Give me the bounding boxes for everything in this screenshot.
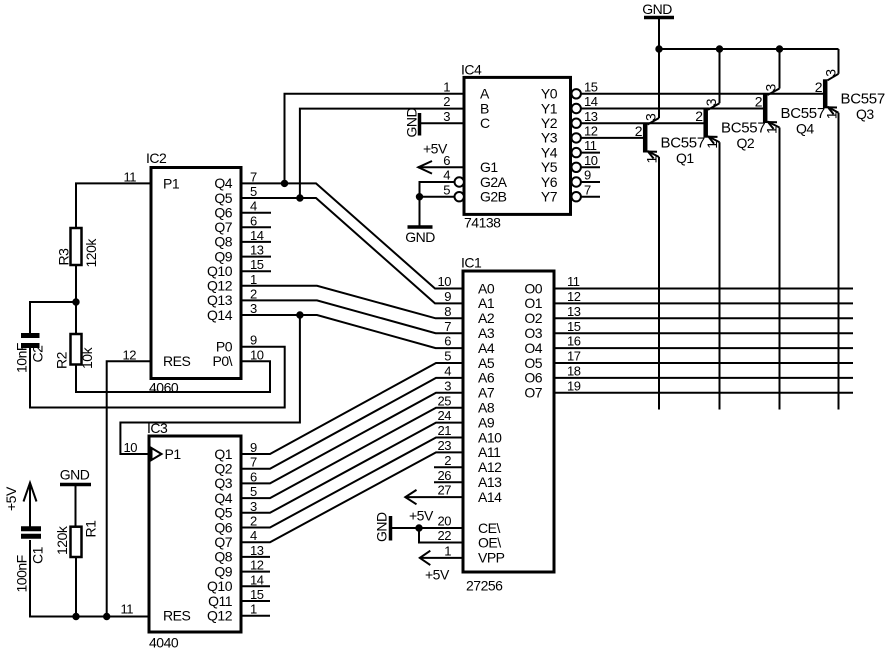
svg-text:Q1: Q1 [214, 446, 232, 462]
svg-text:VPP: VPP [478, 550, 505, 566]
svg-text:3: 3 [643, 113, 659, 121]
svg-text:Y6: Y6 [541, 174, 558, 190]
svg-text:3: 3 [250, 499, 257, 514]
IC4 Y3 inverting output circle [572, 133, 581, 142]
wire IC4 Y3 pin 12 to Q1 base [581, 137, 643, 139]
svg-text:Q4: Q4 [796, 121, 814, 137]
svg-text:A6: A6 [478, 370, 495, 386]
node Q5 branch junction [297, 195, 303, 201]
svg-text:Q4: Q4 [214, 175, 232, 191]
svg-text:2: 2 [443, 94, 450, 109]
svg-text:GND: GND [404, 108, 420, 138]
IC4 74138 decoder [443, 62, 597, 231]
svg-text:10nF: 10nF [14, 343, 30, 373]
svg-text:2: 2 [250, 514, 257, 529]
IC4 G2A inverting input circle [455, 177, 464, 186]
svg-text:Q8: Q8 [214, 549, 232, 565]
svg-text:2: 2 [444, 453, 451, 468]
svg-text:A5: A5 [478, 355, 495, 371]
svg-text:6: 6 [443, 153, 450, 168]
svg-text:A14: A14 [478, 489, 502, 505]
node Q14 branch junction [297, 312, 303, 318]
svg-text:Q3: Q3 [856, 106, 874, 122]
wire IC4 G2A G2B to ground [420, 182, 455, 227]
svg-text:A0: A0 [478, 280, 495, 296]
svg-text:20: 20 [438, 514, 452, 529]
wire IC2 Q10 pin 15 stub [241, 270, 271, 272]
svg-text:6: 6 [250, 213, 257, 228]
wire IC4 Y2 pin 13 to Q2 base [581, 122, 704, 124]
svg-text:9: 9 [250, 440, 257, 455]
svg-text:BC557: BC557 [781, 105, 825, 122]
ground bar for CE and OE [374, 512, 391, 542]
svg-text:Q10: Q10 [207, 578, 233, 594]
svg-text:G1: G1 [480, 159, 498, 175]
svg-text:13: 13 [250, 543, 264, 558]
wire IC1 O4 pin 16 output bus [554, 347, 853, 349]
svg-text:10: 10 [124, 440, 138, 455]
svg-text:Q12: Q12 [207, 608, 233, 624]
wire IC2 Q6 pin 4 stub [241, 212, 271, 214]
svg-text:9: 9 [584, 168, 591, 183]
svg-text:Q9: Q9 [214, 563, 232, 579]
IC1 27256 EPROM [438, 255, 581, 594]
svg-text:Q13: Q13 [207, 292, 233, 308]
svg-text:+5V: +5V [409, 508, 434, 524]
node Q4 branch junction [281, 180, 287, 186]
svg-text:G2B: G2B [480, 189, 507, 205]
svg-text:GND: GND [374, 512, 390, 542]
svg-text:IC1: IC1 [461, 255, 482, 271]
node CE-OE junction [416, 525, 422, 531]
node RES wire junction [104, 613, 110, 619]
IC4 Y1 inverting output circle [572, 104, 581, 113]
svg-text:2: 2 [250, 286, 257, 301]
svg-text:Y5: Y5 [541, 159, 558, 175]
svg-text:Y7: Y7 [541, 189, 558, 205]
svg-text:A3: A3 [478, 325, 495, 341]
wire IC2 Q14 to IC3 pin 10 P1 clock [120, 315, 300, 454]
transistor Q2 BC557 PNP [695, 49, 765, 410]
svg-text:8: 8 [444, 304, 451, 319]
wire IC1 A12 pin 2 stub [434, 466, 463, 468]
svg-text:13: 13 [567, 304, 581, 319]
node R3-R2-C2 junction [73, 299, 79, 305]
svg-text:10: 10 [438, 274, 452, 289]
node rail junction 2 [716, 46, 722, 52]
svg-text:R3: R3 [56, 248, 72, 266]
svg-text:26: 26 [438, 468, 452, 483]
wire IC2 Q9 pin 13 stub [241, 256, 271, 258]
svg-text:A13: A13 [478, 474, 502, 490]
svg-text:O6: O6 [524, 370, 542, 386]
svg-text:11: 11 [584, 138, 597, 153]
node rail junction 1 [656, 46, 662, 52]
svg-text:IC2: IC2 [146, 150, 167, 166]
svg-text:3: 3 [823, 69, 839, 77]
IC3 4040 binary counter [121, 420, 264, 651]
svg-text:24: 24 [438, 408, 452, 423]
svg-text:13: 13 [584, 109, 598, 124]
ground symbol above R1 [60, 467, 91, 528]
svg-text:3: 3 [444, 378, 451, 393]
svg-text:O5: O5 [524, 355, 542, 371]
wire IC3 Q3 pin 6 to IC1 A7 [241, 393, 463, 484]
IC4 Y0 inverting output circle [572, 89, 581, 98]
svg-text:Y3: Y3 [541, 130, 558, 146]
wire emitter supply rail [659, 48, 839, 50]
svg-text:Y0: Y0 [541, 86, 558, 102]
svg-text:12: 12 [123, 347, 137, 362]
svg-text:120k: 120k [83, 238, 99, 268]
svg-text:Q2: Q2 [737, 135, 755, 151]
svg-text:A12: A12 [478, 459, 502, 475]
svg-text:Y2: Y2 [541, 115, 558, 131]
node rail junction 3 [776, 46, 782, 52]
wire branch Q4 to IC4 pin 1 A [285, 94, 465, 184]
svg-text:O1: O1 [524, 295, 542, 311]
svg-text:5: 5 [250, 184, 257, 199]
svg-text:Q3: Q3 [214, 475, 232, 491]
wire IC3 Q8 pin 13 stub [241, 556, 270, 558]
svg-text:19: 19 [567, 378, 581, 393]
IC4 G2B inverting input circle [455, 192, 464, 201]
svg-text:15: 15 [584, 79, 598, 94]
svg-text:5: 5 [444, 349, 451, 364]
IC4 Y5 inverting output circle [572, 163, 581, 172]
wire IC1 A13 pin 26 stub [434, 481, 463, 483]
svg-text:Q4: Q4 [214, 490, 232, 506]
svg-text:BC557: BC557 [661, 135, 705, 152]
wire R2 bottom to IC2 pin 10 P0\ [76, 361, 270, 392]
svg-text:12: 12 [584, 124, 598, 139]
svg-text:11: 11 [124, 169, 137, 184]
wire R3 top to IC2 pin 11 (P1) [76, 183, 151, 228]
+5V supply arrow above C1 [3, 483, 37, 527]
svg-text:25: 25 [438, 393, 452, 408]
svg-text:O0: O0 [524, 280, 542, 296]
node G2A-G2B junction [416, 194, 422, 200]
svg-text:A4: A4 [478, 340, 495, 356]
svg-text:Q12: Q12 [207, 278, 233, 294]
svg-text:4: 4 [250, 528, 257, 543]
resistor R3 120k [56, 228, 100, 334]
svg-text:16: 16 [567, 334, 581, 349]
svg-text:Q5: Q5 [214, 505, 232, 521]
svg-text:1: 1 [764, 126, 780, 134]
svg-text:5: 5 [443, 182, 450, 197]
svg-text:15: 15 [567, 319, 581, 334]
ground symbol top [642, 1, 674, 49]
wire IC3 Q6 pin 2 to IC1 A10 [241, 438, 463, 528]
svg-text:14: 14 [250, 572, 264, 587]
wire IC1 O5 pin 17 output bus [554, 362, 853, 364]
svg-text:3: 3 [763, 84, 779, 92]
svg-text:P0: P0 [216, 339, 233, 355]
transistor Q3 BC557 PNP [815, 49, 885, 410]
svg-text:4040: 4040 [149, 635, 179, 651]
IC4 Y6 inverting output circle [572, 177, 581, 186]
svg-text:1: 1 [824, 111, 840, 119]
svg-text:A11: A11 [478, 444, 501, 460]
transistor Q1 BC557 PNP [635, 49, 705, 410]
wire reset rail to IC3 pin 11 RES [30, 540, 149, 617]
wire junction to IC1 OE\ pin 22 [419, 528, 463, 543]
svg-text:Q6: Q6 [214, 205, 232, 221]
svg-text:13: 13 [250, 243, 264, 258]
IC4 Y2 inverting output circle [572, 119, 581, 128]
svg-text:74138: 74138 [464, 215, 501, 231]
svg-text:P1: P1 [165, 446, 182, 462]
svg-text:Y4: Y4 [541, 144, 558, 160]
+5V arrow into IC4 pin 6 G1 [418, 141, 464, 174]
svg-text:2: 2 [755, 94, 763, 110]
ground symbol below G2B [405, 227, 435, 245]
svg-text:1: 1 [704, 141, 720, 149]
wire IC1 O0 pin 11 output bus [554, 288, 853, 290]
wire IC3 Q9 pin 12 stub [241, 571, 270, 573]
svg-text:3: 3 [703, 98, 719, 106]
svg-text:10: 10 [584, 153, 598, 168]
svg-text:1: 1 [644, 156, 660, 164]
svg-text:RES: RES [163, 608, 190, 624]
svg-text:Q10: Q10 [207, 263, 233, 279]
svg-text:O4: O4 [524, 340, 542, 356]
capacitor C2 10nF [14, 336, 46, 374]
capacitor C1 100nF [14, 529, 46, 593]
svg-text:GND: GND [60, 467, 90, 483]
svg-text:O2: O2 [524, 310, 542, 326]
svg-text:6: 6 [444, 334, 451, 349]
svg-text:C: C [480, 115, 490, 131]
wire IC2 pin 12 RES down to reset rail [107, 361, 151, 616]
svg-text:A8: A8 [478, 400, 495, 416]
resistor R1 120k [54, 520, 99, 617]
svg-text:C2: C2 [30, 345, 46, 363]
svg-text:Y1: Y1 [541, 100, 558, 116]
svg-text:17: 17 [567, 349, 581, 364]
svg-text:C1: C1 [30, 546, 46, 564]
wire junction to C2 top [30, 302, 76, 334]
wire IC2 Q5 pin 5 to IC1 A1 [241, 198, 463, 303]
wire IC1 O2 pin 13 output bus [554, 317, 853, 319]
svg-text:P0\: P0\ [212, 353, 232, 369]
svg-text:BC557: BC557 [841, 90, 885, 107]
svg-text:4: 4 [444, 364, 451, 379]
svg-text:120k: 120k [54, 525, 70, 555]
svg-text:R2: R2 [54, 351, 70, 369]
svg-text:1: 1 [444, 543, 451, 558]
svg-text:A1: A1 [478, 295, 495, 311]
svg-text:O3: O3 [524, 325, 542, 341]
wire IC3 Q12 pin 1 stub [241, 615, 270, 617]
ground bar at IC4 pin 3 C [404, 108, 420, 138]
wire IC3 Q1 pin 9 to IC1 A5 [241, 363, 463, 454]
svg-text:10k: 10k [79, 346, 95, 369]
svg-text:12: 12 [250, 558, 264, 573]
wire IC4 Y5 pin 10 stub [581, 166, 600, 168]
node R1 bottom junction [73, 613, 79, 619]
svg-text:Q14: Q14 [207, 307, 233, 323]
svg-text:4: 4 [443, 168, 450, 183]
svg-text:14: 14 [584, 94, 598, 109]
svg-text:23: 23 [438, 438, 452, 453]
svg-text:21: 21 [438, 423, 452, 438]
svg-text:22: 22 [438, 528, 452, 543]
wire IC2 Q8 pin 14 stub [241, 241, 271, 243]
svg-text:7: 7 [250, 455, 257, 470]
svg-text:12: 12 [567, 289, 581, 304]
svg-text:Q2: Q2 [214, 461, 232, 477]
svg-text:3: 3 [250, 301, 257, 316]
svg-text:B: B [480, 100, 489, 116]
svg-text:Q9: Q9 [214, 248, 232, 264]
svg-text:1: 1 [250, 272, 257, 287]
svg-text:15: 15 [250, 587, 264, 602]
svg-text:P1: P1 [163, 176, 180, 192]
svg-text:11: 11 [121, 602, 134, 617]
svg-text:15: 15 [250, 257, 264, 272]
wire IC2 Q12 pin 1 to IC1 A2 [241, 286, 463, 319]
wire branch Q5 to IC4 pin 2 B [300, 109, 464, 198]
svg-text:6: 6 [250, 469, 257, 484]
wire IC3 Q5 pin 3 to IC1 A9 [241, 423, 463, 513]
wire IC1 O7 pin 19 output bus [554, 392, 853, 394]
svg-text:14: 14 [250, 228, 264, 243]
svg-text:A7: A7 [478, 385, 495, 401]
svg-text:Q1: Q1 [676, 150, 694, 166]
svg-text:1: 1 [250, 602, 257, 617]
wire IC3 Q11 pin 15 stub [241, 600, 270, 602]
svg-text:100nF: 100nF [14, 555, 30, 592]
svg-text:Q6: Q6 [214, 519, 232, 535]
wire IC4 Y1 pin 14 to Q4 base [581, 108, 763, 110]
wire C2 bottom to IC2 pin 9 P0 [30, 347, 285, 408]
wire GND to IC4 pin 3 C [420, 122, 464, 124]
wire IC3 Q10 pin 14 stub [241, 585, 270, 587]
wire IC2 Q14 pin 3 to IC1 A4 [241, 315, 463, 348]
IC4 Y7 inverting output circle [572, 192, 581, 201]
IC2 4060 binary counter with oscillator [123, 150, 264, 396]
wire IC3 Q7 pin 4 to IC1 A11 [241, 452, 463, 542]
svg-text:A9: A9 [478, 414, 495, 430]
wire IC1 O6 pin 18 output bus [554, 377, 853, 379]
svg-text:2: 2 [635, 123, 643, 139]
wire IC3 Q2 pin 7 to IC1 A6 [241, 378, 463, 469]
svg-text:11: 11 [567, 274, 580, 289]
svg-text:R1: R1 [83, 520, 99, 538]
svg-text:RES: RES [163, 353, 190, 369]
svg-text:A10: A10 [478, 429, 502, 445]
svg-text:7: 7 [584, 182, 591, 197]
svg-text:4060: 4060 [149, 380, 179, 396]
svg-text:1: 1 [443, 79, 450, 94]
wire GND to IC1 CE\ pin 20 [391, 527, 463, 529]
svg-text:+5V: +5V [425, 567, 450, 583]
svg-text:O7: O7 [524, 385, 542, 401]
svg-text:7: 7 [444, 319, 451, 334]
+5V arrow into IC1 A14 pin 27 [405, 490, 463, 524]
wire IC4 Y4 pin 11 stub [581, 152, 600, 154]
+5V arrow into IC1 VPP pin 1 [420, 551, 464, 583]
wire IC1 O1 pin 12 output bus [554, 302, 853, 304]
svg-text:G2A: G2A [480, 174, 508, 190]
resistor R2 10k [54, 334, 96, 369]
wire IC2 Q4 pin 7 to IC1 A0 [241, 183, 463, 288]
wire IC3 Q4 pin 5 to IC1 A8 [241, 408, 463, 498]
wire IC1 O3 pin 15 output bus [554, 332, 853, 334]
svg-text:27: 27 [438, 483, 452, 498]
wire IC2 Q7 pin 6 stub [241, 226, 271, 228]
svg-text:4: 4 [250, 199, 257, 214]
wire IC4 Y6 pin 9 stub [581, 181, 600, 183]
svg-text:9: 9 [444, 289, 451, 304]
svg-text:10: 10 [250, 347, 264, 362]
svg-text:2: 2 [695, 108, 703, 124]
svg-text:5: 5 [250, 484, 257, 499]
svg-text:Q11: Q11 [208, 593, 233, 609]
svg-text:7: 7 [250, 169, 257, 184]
svg-text:2: 2 [815, 79, 823, 95]
svg-text:27256: 27256 [466, 578, 503, 594]
wire IC2 Q13 pin 2 to IC1 A3 [241, 300, 463, 333]
svg-text:+5V: +5V [3, 486, 19, 511]
svg-text:BC557: BC557 [721, 120, 765, 137]
wire IC4 Y0 pin 15 to Q3 base [581, 93, 823, 95]
svg-text:Q8: Q8 [214, 234, 232, 250]
wire IC4 Y7 pin 7 stub [581, 196, 600, 198]
IC4 Y4 inverting output circle [572, 148, 581, 157]
svg-text:Q5: Q5 [214, 190, 232, 206]
transistor Q4 BC557 PNP [755, 49, 825, 410]
svg-text:3: 3 [443, 109, 450, 124]
svg-text:GND: GND [642, 1, 672, 17]
svg-text:IC4: IC4 [461, 62, 482, 78]
svg-text:18: 18 [567, 364, 581, 379]
svg-text:GND: GND [405, 229, 435, 245]
svg-text:Q7: Q7 [214, 534, 232, 550]
svg-text:A2: A2 [478, 310, 495, 326]
svg-text:A: A [480, 86, 490, 102]
svg-text:OE\: OE\ [478, 534, 501, 550]
svg-text:Q7: Q7 [214, 219, 232, 235]
svg-text:9: 9 [250, 333, 257, 348]
